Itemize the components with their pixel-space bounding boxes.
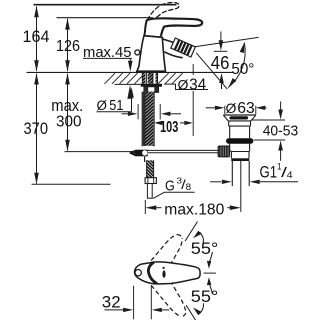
svg-text:55°: 55°: [191, 240, 219, 258]
svg-text:300: 300: [56, 113, 82, 130]
svg-text:103: 103: [160, 119, 178, 136]
svg-text:Ø: Ø: [178, 77, 189, 93]
svg-text:34: 34: [189, 77, 206, 94]
svg-text:4: 4: [287, 170, 293, 181]
svg-text:63: 63: [237, 100, 255, 117]
svg-text:164: 164: [23, 27, 50, 46]
svg-text:40-53: 40-53: [263, 122, 299, 139]
svg-text:max.180: max.180: [164, 201, 224, 218]
svg-text:370: 370: [24, 119, 49, 138]
svg-text:55°: 55°: [191, 288, 219, 306]
svg-text:Ø: Ø: [97, 98, 107, 113]
svg-text:8: 8: [186, 182, 192, 192]
svg-text:50°: 50°: [231, 61, 254, 78]
svg-text:max.: max.: [51, 97, 83, 115]
svg-text:Ø: Ø: [226, 100, 237, 116]
svg-text:32: 32: [102, 292, 121, 311]
svg-text:46: 46: [211, 53, 230, 73]
svg-text:126: 126: [56, 38, 80, 55]
svg-text:G1: G1: [260, 163, 278, 182]
